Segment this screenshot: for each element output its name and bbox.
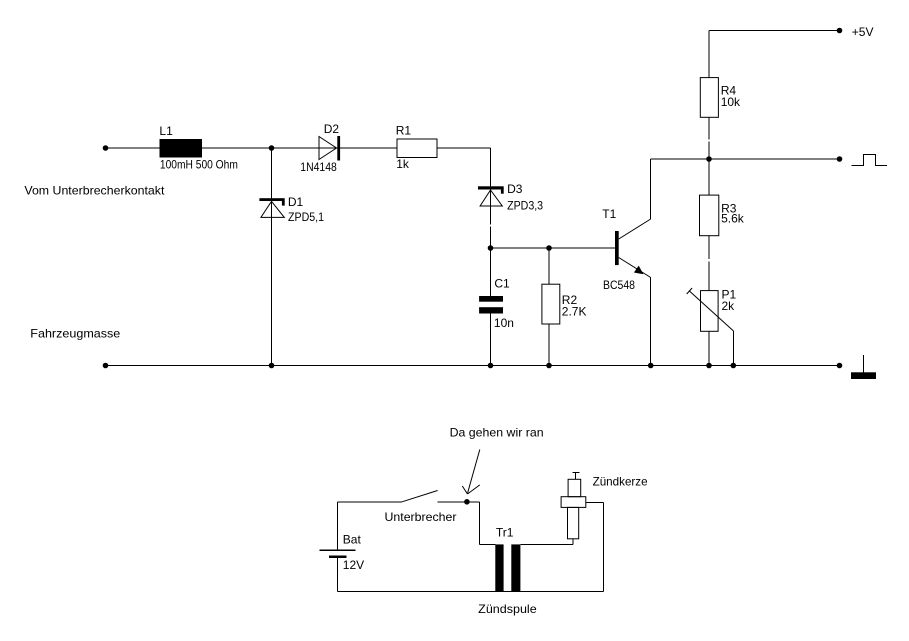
wire R1 to D3 corner xyxy=(437,147,491,149)
ground symbol bar xyxy=(851,372,876,379)
node output terminal xyxy=(837,156,843,162)
spark plug upper insulator xyxy=(568,479,581,496)
diode D2 cathode bar xyxy=(337,136,340,161)
wire right side down xyxy=(603,502,605,591)
wire ground rail xyxy=(106,365,840,367)
svg-text:Vom Unterbrecherkontakt: Vom Unterbrecherkontakt xyxy=(24,183,165,197)
wire collector up to output line xyxy=(650,159,652,219)
wire secondary to spark plug xyxy=(520,543,573,545)
battery Bat long plate xyxy=(320,549,356,551)
switch blade Unterbrecher xyxy=(402,491,438,502)
spark plug lower insulator xyxy=(568,507,579,538)
capacitor C1 plate top xyxy=(479,296,503,302)
spark plug hex body xyxy=(561,497,586,508)
node junction wiper bottom xyxy=(731,363,737,369)
wire D1 branch vertical xyxy=(271,148,273,366)
node junction R2 bottom xyxy=(546,363,552,369)
svg-text:Zündkerze: Zündkerze xyxy=(593,475,648,489)
zener diode D1 triangle xyxy=(261,201,284,217)
node junction C1 bottom xyxy=(488,363,494,369)
battery Bat short plate xyxy=(329,555,346,558)
node ground rail left terminal xyxy=(103,363,109,369)
svg-text:Zündspule: Zündspule xyxy=(478,602,537,616)
resistor R3 xyxy=(700,195,719,236)
zener diode D1 cathode bar xyxy=(259,198,284,201)
wire spark plug side to right xyxy=(586,501,604,503)
node +5V terminal xyxy=(837,28,843,34)
wire input to L1 xyxy=(106,147,161,149)
wire to primary winding xyxy=(479,543,495,545)
svg-text:C1: C1 xyxy=(494,277,510,291)
svg-text:ZPD3,3: ZPD3,3 xyxy=(507,199,543,213)
ground symbol stem xyxy=(863,355,865,372)
wire +5V to R4 xyxy=(708,31,710,78)
spark plug terminal stem xyxy=(575,472,577,479)
svg-text:10k: 10k xyxy=(721,95,741,109)
svg-text:R1: R1 xyxy=(396,124,412,138)
node junction at D1 top xyxy=(269,145,275,151)
node: left input terminal xyxy=(103,145,109,151)
zener diode D3 triangle xyxy=(480,190,502,206)
zener diode D1 bar hook xyxy=(282,201,285,206)
annotation arrow barb left xyxy=(462,486,467,494)
resistor R1 xyxy=(397,139,437,158)
inductor L1 (solid body) xyxy=(160,139,203,158)
transistor T1 emitter diagonal xyxy=(619,258,651,278)
svg-text:10n: 10n xyxy=(494,316,514,330)
node junction emitter bottom xyxy=(648,363,654,369)
wire corner down to primary top xyxy=(478,502,480,545)
spark plug terminal tick xyxy=(572,471,579,473)
svg-text:2k: 2k xyxy=(722,299,736,313)
annotation arrow barb right xyxy=(468,485,480,494)
diode D2 triangle xyxy=(319,137,337,160)
wire R3 to P1 xyxy=(708,236,710,291)
wire output node to R3 xyxy=(708,159,710,195)
wire C1 bottom to ground rail xyxy=(490,314,492,366)
wire spark plug bottom tip xyxy=(572,539,574,545)
svg-text:1k: 1k xyxy=(396,157,410,171)
zener diode D3 bar hook xyxy=(501,190,504,194)
svg-text:5.6k: 5.6k xyxy=(721,212,745,226)
svg-text:D2: D2 xyxy=(324,122,340,136)
svg-text:12V: 12V xyxy=(343,558,364,572)
wire R2 top xyxy=(548,248,550,284)
node junction D1 bottom xyxy=(269,363,275,369)
transistor T1 base bar xyxy=(615,231,619,265)
wire output line xyxy=(651,158,840,160)
node junction P1 bottom xyxy=(706,363,712,369)
svg-text:ZPD5,1: ZPD5,1 xyxy=(288,210,324,224)
wire P1 bottom xyxy=(708,331,710,365)
svg-text:BC548: BC548 xyxy=(603,278,635,292)
svg-text:Da gehen wir ran: Da gehen wir ran xyxy=(450,426,544,440)
node junction D3/C1/base xyxy=(488,245,494,251)
potentiometer P1 wiper tail tick xyxy=(687,288,692,294)
svg-text:L1: L1 xyxy=(159,124,173,138)
wire P1 wiper down to rail xyxy=(732,331,734,366)
svg-text:100mH 500 Ohm: 100mH 500 Ohm xyxy=(160,158,238,172)
node ground rail right terminal xyxy=(837,363,843,369)
resistor R4 xyxy=(700,78,718,118)
output pulse symbol xyxy=(852,155,888,166)
svg-text:Unterbrecher: Unterbrecher xyxy=(385,510,457,524)
svg-text:Fahrzeugmasse: Fahrzeugmasse xyxy=(30,327,120,341)
wire base node to T1 xyxy=(491,247,616,249)
transistor T1 emitter arrow xyxy=(634,266,644,275)
node junction output/R4/R3 xyxy=(706,156,712,162)
capacitor C1 plate bottom xyxy=(479,307,503,313)
wire R2 bottom xyxy=(548,324,550,366)
node junction R2 top xyxy=(546,245,552,251)
wire battery left lower xyxy=(337,557,339,592)
svg-text:2.7K: 2.7K xyxy=(562,305,587,319)
potentiometer P1 body xyxy=(701,291,719,332)
annotation arrow shaft xyxy=(468,450,480,494)
wire emitter down to ground rail xyxy=(650,278,652,366)
svg-text:D1: D1 xyxy=(288,195,304,209)
wire D3/C1 column upper xyxy=(490,148,492,296)
transformer Tr1 secondary winding xyxy=(511,544,520,591)
wire +5V rail xyxy=(709,30,840,32)
svg-text:Bat: Bat xyxy=(343,532,362,546)
svg-text:D3: D3 xyxy=(507,182,523,196)
zener diode D3 cathode bar xyxy=(478,186,504,189)
wire switch to corner xyxy=(438,501,480,503)
potentiometer P1 wiper diagonal xyxy=(689,291,733,331)
svg-text:1N4148: 1N4148 xyxy=(300,160,337,174)
node switch tap xyxy=(464,499,470,505)
wire L1 to R1 through D2 xyxy=(202,147,397,149)
transformer Tr1 primary winding xyxy=(495,544,503,591)
svg-text:T1: T1 xyxy=(602,207,616,221)
wire battery top loop left xyxy=(338,501,402,503)
svg-text:Tr1: Tr1 xyxy=(496,526,514,540)
wire bottom return xyxy=(338,590,604,592)
transistor T1 collector diagonal xyxy=(619,219,651,239)
wire R4 to output node xyxy=(708,117,710,159)
svg-text:+5V: +5V xyxy=(852,25,874,39)
wire battery left upper xyxy=(337,502,339,551)
resistor R2 xyxy=(542,284,560,324)
